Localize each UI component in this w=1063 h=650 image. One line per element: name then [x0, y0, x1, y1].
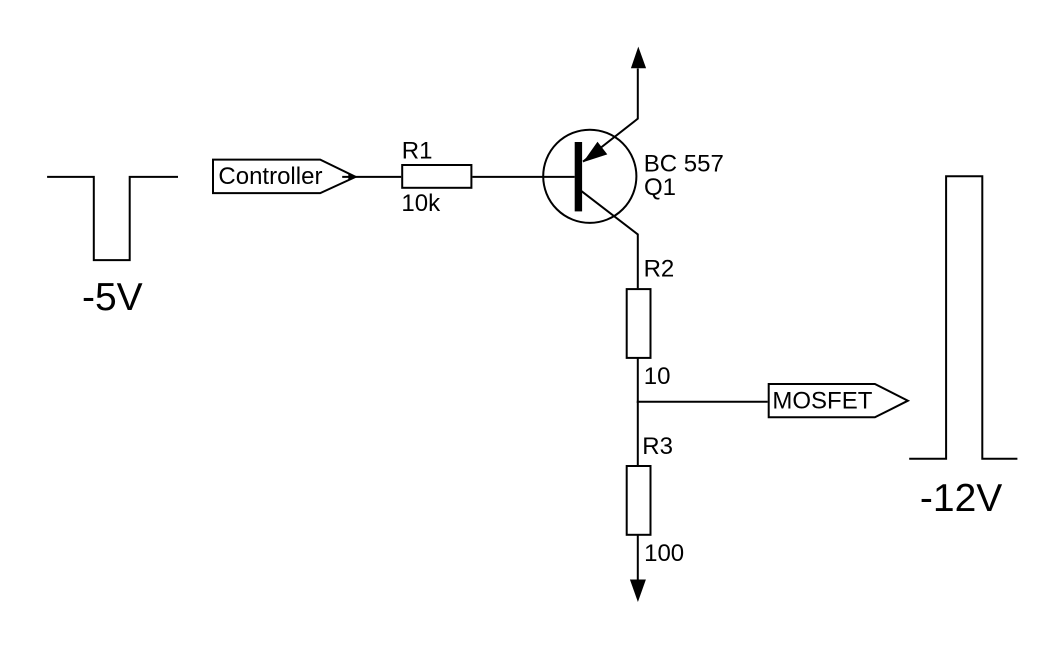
svg-text:MOSFET: MOSFET	[772, 387, 872, 414]
label -5V	[82, 276, 143, 319]
svg-text:10: 10	[644, 363, 671, 390]
transistor Q1 collector	[581, 191, 637, 288]
svg-text:R1: R1	[402, 137, 433, 164]
svg-text:-5V: -5V	[82, 276, 143, 319]
svg-text:Controller: Controller	[218, 163, 322, 190]
label -12V	[920, 477, 1002, 520]
transistor Q1 emitter with arrow	[583, 69, 638, 163]
ground arrow down	[630, 580, 646, 603]
svg-text:-12V: -12V	[920, 477, 1002, 520]
svg-text:10k: 10k	[401, 190, 441, 217]
wire node to R3	[637, 402, 639, 466]
input pulse waveform -5V	[47, 177, 178, 260]
label R1	[402, 137, 433, 164]
label Q1	[644, 174, 676, 201]
transistor Q1 base bar	[575, 142, 582, 211]
net tag MOSFET	[769, 384, 908, 417]
output pulse waveform -12V	[909, 176, 1017, 459]
net tag Controller	[213, 160, 356, 194]
power arrow up	[631, 47, 646, 69]
resistor R3	[627, 466, 651, 535]
label BC 557	[644, 150, 724, 177]
wire R3 to ground arrow	[637, 535, 639, 581]
svg-text:R2: R2	[644, 256, 675, 283]
wire R2 to node	[637, 359, 639, 403]
resistor R1	[402, 165, 471, 188]
label R2	[644, 256, 675, 283]
value 100	[644, 540, 684, 567]
transistor Q1 circle	[543, 130, 636, 223]
value 10k	[401, 190, 441, 217]
svg-text:R3: R3	[642, 433, 673, 460]
svg-text:Q1: Q1	[644, 174, 676, 201]
wire node to MOSFET tag	[637, 401, 768, 403]
wire R1 to base of Q1	[472, 176, 574, 178]
label R3	[642, 433, 673, 460]
resistor R2	[627, 289, 651, 358]
value 10	[644, 363, 671, 390]
wire Controller to R1 with arrowhead	[342, 173, 401, 181]
svg-text:100: 100	[644, 540, 684, 567]
